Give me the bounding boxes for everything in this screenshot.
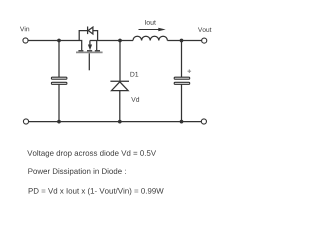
wire diode top lead (119, 41, 121, 82)
terminal Vin (23, 38, 28, 43)
terminal ground right (201, 119, 206, 124)
wire output cap top lead (181, 41, 183, 78)
capacitor C1 input (51, 77, 67, 84)
node switch junction dot (118, 39, 122, 43)
terminal Vout (202, 38, 207, 43)
formula line 2 (28, 168, 125, 175)
node input junction dot (57, 39, 61, 43)
wire diode bottom lead (119, 91, 121, 122)
transistor Q1 MOSFET (76, 27, 103, 71)
node ground diode junction dot (118, 120, 122, 124)
inductor L1 (133, 36, 167, 40)
wire Vin to Q1 drain (28, 41, 81, 51)
node ground output junction dot (180, 120, 184, 124)
label Vd (145, 20, 156, 25)
node Vin label (20, 26, 29, 31)
wire input cap bottom lead (58, 84, 60, 121)
node Vout label (131, 97, 139, 102)
terminal ground left (23, 119, 28, 124)
formula line 1 (27, 150, 156, 157)
wire inductor to Vout (167, 40, 201, 42)
wire output cap bottom lead (181, 84, 183, 121)
label D1 (198, 27, 212, 32)
current arrow Iout (139, 28, 166, 32)
diode D1 (110, 81, 129, 90)
wire ground rail (29, 121, 202, 123)
node ground cap junction dot (57, 120, 61, 124)
formula line 3 (29, 188, 164, 195)
polarity plus sign (188, 69, 192, 73)
label Iout (130, 72, 138, 77)
node output junction dot (180, 39, 184, 43)
capacitor C2 output (174, 77, 190, 84)
wire Q1 source to switch node (90, 40, 133, 42)
wire input cap top lead (58, 41, 60, 78)
